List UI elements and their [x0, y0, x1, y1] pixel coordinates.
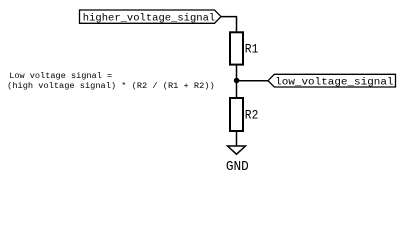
resistor R1	[230, 32, 258, 64]
formula comment text	[7, 71, 214, 91]
wire higher_voltage_signal to R1 pin 1	[221, 17, 237, 33]
svg-text:R2: R2	[245, 109, 259, 123]
svg-text:Low voltage signal =: Low voltage signal =	[9, 71, 112, 81]
svg-text:low_voltage_signal: low_voltage_signal	[275, 77, 393, 89]
global label low_voltage_signal	[268, 74, 396, 88]
wire R1 pin 2 to node	[236, 65, 238, 81]
svg-text:(high voltage signal) * (R2 /: (high voltage signal) * (R2 / (R1 + R2))	[7, 81, 214, 91]
junction node	[234, 78, 240, 84]
svg-text:higher_voltage_signal: higher_voltage_signal	[83, 12, 215, 24]
wire node to low_voltage_signal	[237, 80, 269, 82]
global label higher_voltage_signal	[80, 10, 222, 24]
resistor R2	[230, 98, 258, 131]
svg-text:R1: R1	[245, 43, 259, 57]
ground	[226, 146, 249, 175]
wire node to R2 pin 1	[236, 81, 238, 98]
svg-text:GND: GND	[226, 160, 249, 175]
wire R2 pin 2 to ground	[236, 131, 238, 146]
